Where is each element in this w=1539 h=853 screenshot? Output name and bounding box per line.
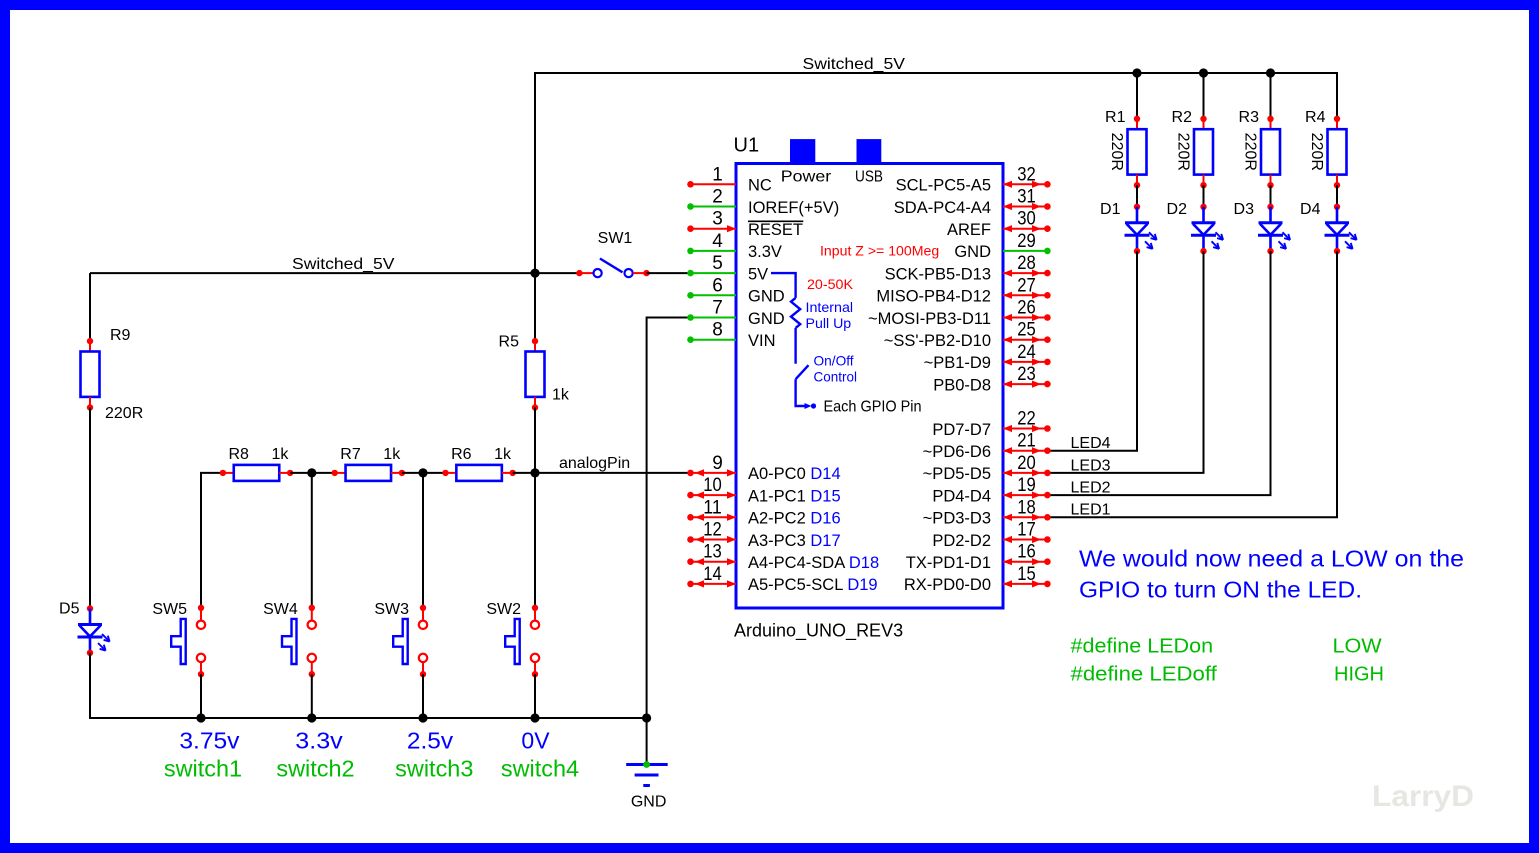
pin 27 (U1 right) — [1003, 292, 1051, 299]
svg-text:SW1: SW1 — [598, 230, 633, 247]
svg-text:PD4-D4: PD4-D4 — [932, 487, 991, 505]
svg-text:GPIO to turn ON the LED.: GPIO to turn ON the LED. — [1079, 576, 1362, 602]
svg-text:~PB1-D9: ~PB1-D9 — [924, 354, 991, 372]
pin 21 (U1 right) — [1003, 447, 1051, 454]
svg-text:1k: 1k — [272, 446, 290, 463]
junction bus/R3 — [1266, 68, 1275, 77]
svg-text:25: 25 — [1017, 320, 1036, 341]
wire: D2 anode from resistor — [1203, 185, 1205, 207]
wire: R5 column — [534, 273, 536, 341]
wire: R3 column from bus — [1270, 73, 1272, 119]
svg-text:6: 6 — [712, 275, 723, 296]
svg-text:20: 20 — [1017, 453, 1036, 474]
wire: R8 to junction — [290, 472, 312, 474]
svg-text:Internal: Internal — [806, 299, 854, 315]
svg-text:D4: D4 — [1300, 201, 1321, 218]
junction rail/SW3 — [418, 713, 427, 722]
resistor R6 — [442, 465, 516, 481]
junction bus/R2 — [1199, 68, 1208, 77]
Power connector — [790, 139, 815, 165]
svg-text:3.75v: 3.75v — [179, 728, 240, 754]
pin 8 (U1 left) — [687, 336, 736, 343]
svg-text:220R: 220R — [1175, 133, 1192, 171]
svg-text:220R: 220R — [105, 405, 143, 422]
svg-text:10: 10 — [703, 475, 722, 496]
svg-text:3.3v: 3.3v — [295, 728, 343, 754]
pin 30 (U1 right) — [1003, 225, 1051, 232]
svg-text:NC: NC — [748, 177, 772, 195]
svg-text:Switched_5V: Switched_5V — [292, 256, 395, 273]
resistor R7 — [332, 465, 406, 481]
LED D5 — [78, 605, 110, 656]
svg-text:7: 7 — [712, 298, 723, 319]
svg-text:R7: R7 — [340, 446, 361, 463]
pin 17 (U1 right) — [1003, 536, 1051, 543]
pin 22 (U1 right) — [1003, 425, 1051, 432]
svg-text:SDA-PC4-A4: SDA-PC4-A4 — [894, 199, 991, 217]
wire: SW3 to bottom rail — [422, 674, 424, 718]
USB connector — [857, 139, 882, 165]
svg-text:22: 22 — [1017, 409, 1036, 430]
pin 16 (U1 right) — [1003, 558, 1051, 565]
svg-text:~PD3-D3: ~PD3-D3 — [923, 510, 991, 528]
svg-text:9: 9 — [712, 453, 723, 474]
svg-text:24: 24 — [1017, 342, 1036, 363]
pin 12 (U1 left) — [687, 536, 736, 543]
wire: junction to SW1 — [535, 272, 579, 274]
pin 7 (U1 left) — [687, 314, 736, 321]
svg-text:5V: 5V — [748, 265, 768, 283]
svg-text:32: 32 — [1017, 164, 1036, 185]
LED D2 — [1191, 204, 1223, 255]
resistor R3 — [1261, 116, 1280, 189]
resistor R1 — [1128, 116, 1147, 189]
svg-text:A1-PC1 D15: A1-PC1 D15 — [748, 487, 841, 505]
wire: R5 to analog junction — [534, 408, 536, 473]
pin 3 (U1 left) — [687, 225, 736, 232]
pin 26 (U1 right) — [1003, 314, 1051, 321]
svg-text:A4-PC4-SDA D18: A4-PC4-SDA D18 — [748, 554, 879, 572]
svg-text:21: 21 — [1017, 431, 1036, 452]
svg-text:VIN: VIN — [748, 332, 776, 350]
svg-text:R2: R2 — [1172, 109, 1193, 126]
pin 29 (U1 right) — [1003, 248, 1051, 255]
svg-text:A3-PC3 D17: A3-PC3 D17 — [748, 532, 841, 550]
wire: Switched_5V top bus — [535, 73, 1337, 273]
pin 20 (U1 right) — [1003, 469, 1051, 476]
wire: D3 anode from resistor — [1270, 185, 1272, 207]
svg-text:IOREF(+5V): IOREF(+5V) — [748, 199, 839, 217]
svg-text:220R: 220R — [1242, 133, 1259, 171]
svg-text:19: 19 — [1017, 475, 1036, 496]
svg-text:LED2: LED2 — [1071, 480, 1111, 497]
svg-text:Switched_5V: Switched_5V — [803, 56, 906, 73]
junction rail/SW5 — [196, 713, 205, 722]
svg-text:~PD6-D6: ~PD6-D6 — [923, 443, 991, 461]
wire: Switched_5V left branch — [90, 272, 535, 274]
svg-text:switch3: switch3 — [395, 755, 473, 781]
svg-text:RESET: RESET — [748, 221, 803, 239]
wire: column to SW3 — [422, 473, 424, 608]
svg-text:A5-PC5-SCL D19: A5-PC5-SCL D19 — [748, 576, 878, 594]
svg-text:AREF: AREF — [947, 221, 991, 239]
wire: R2 column from bus — [1203, 73, 1205, 119]
svg-text:GND: GND — [631, 794, 667, 811]
svg-text:R8: R8 — [229, 446, 250, 463]
wire: R9 to D5 — [89, 408, 91, 609]
svg-text:#define LEDoff: #define LEDoff — [1071, 663, 1218, 685]
svg-text:HIGH: HIGH — [1334, 663, 1384, 685]
svg-text:A0-PC0 D14: A0-PC0 D14 — [748, 465, 841, 483]
pin 2 (U1 left) — [687, 203, 736, 210]
wire: GND pin7 branch — [647, 318, 691, 719]
svg-text:Control: Control — [814, 368, 858, 384]
svg-text:12: 12 — [703, 520, 722, 541]
pin 11 (U1 left) — [687, 514, 736, 521]
svg-text:17: 17 — [1017, 520, 1036, 541]
pin 15 (U1 right) — [1003, 580, 1051, 587]
svg-text:SW2: SW2 — [486, 601, 521, 618]
svg-text:Power: Power — [781, 169, 832, 186]
svg-text:2: 2 — [712, 187, 723, 208]
wire: rail to ground symbol — [646, 718, 648, 765]
wire: junction to R6 — [423, 472, 446, 474]
svg-text:~MOSI-PB3-D11: ~MOSI-PB3-D11 — [868, 310, 991, 328]
svg-text:LOW: LOW — [1333, 635, 1382, 657]
svg-text:~SS'-PB2-D10: ~SS'-PB2-D10 — [884, 332, 991, 350]
svg-text:MISO-PB4-D12: MISO-PB4-D12 — [876, 288, 991, 306]
svg-text:PB0-D8: PB0-D8 — [933, 376, 991, 394]
svg-text:0V: 0V — [521, 728, 550, 754]
svg-text:R5: R5 — [499, 334, 520, 351]
wire: SW2 to bottom rail — [534, 674, 536, 718]
svg-text:A2-PC2 D16: A2-PC2 D16 — [748, 510, 841, 528]
svg-text:29: 29 — [1017, 231, 1036, 252]
pin 23 (U1 right) — [1003, 381, 1051, 388]
svg-text:Pull Up: Pull Up — [806, 315, 852, 331]
svg-text:switch2: switch2 — [276, 755, 354, 781]
pushbutton switch SW4 — [282, 605, 316, 678]
wire: D1 anode from resistor — [1136, 185, 1138, 207]
svg-text:D5: D5 — [59, 601, 80, 618]
svg-text:analogPin: analogPin — [559, 455, 630, 472]
svg-text:Input Z >= 100Meg: Input Z >= 100Meg — [820, 242, 939, 258]
wire: R1 column from bus — [1136, 73, 1138, 119]
pin 24 (U1 right) — [1003, 358, 1051, 365]
svg-text:31: 31 — [1017, 187, 1036, 208]
wire: SW5 to bottom rail — [200, 674, 202, 718]
svg-text:R4: R4 — [1305, 109, 1326, 126]
resistor R8 — [220, 465, 294, 481]
svg-text:8: 8 — [712, 320, 723, 341]
pin 10 (U1 left) — [687, 492, 736, 499]
svg-text:14: 14 — [703, 564, 722, 585]
svg-text:27: 27 — [1017, 275, 1036, 296]
junction: Switched_5V / R5 / SW1 — [530, 269, 539, 278]
svg-text:SW3: SW3 — [374, 601, 409, 618]
svg-text:#define LEDon: #define LEDon — [1071, 635, 1214, 657]
svg-text:26: 26 — [1017, 298, 1036, 319]
wire: junction to R7 — [312, 472, 335, 474]
svg-text:SW4: SW4 — [263, 601, 298, 618]
wire: R6 to junction — [513, 472, 535, 474]
svg-text:16: 16 — [1017, 542, 1036, 563]
pushbutton switch SW5 — [171, 605, 205, 678]
svg-text:23: 23 — [1017, 364, 1036, 385]
internal pull-up circuit (blue) — [771, 273, 816, 409]
svg-text:D2: D2 — [1167, 201, 1188, 218]
LED D4 — [1325, 204, 1357, 255]
svg-text:TX-PD1-D1: TX-PD1-D1 — [906, 554, 991, 572]
svg-text:PD7-D7: PD7-D7 — [932, 421, 991, 439]
IC U1 Arduino_UNO_REV3 box — [736, 164, 1003, 609]
svg-text:28: 28 — [1017, 253, 1036, 274]
svg-text:15: 15 — [1017, 564, 1036, 585]
svg-text:switch4: switch4 — [501, 755, 579, 781]
wire: R7 to junction — [402, 472, 423, 474]
svg-text:2.5v: 2.5v — [407, 728, 454, 754]
svg-text:R1: R1 — [1105, 109, 1126, 126]
wire: D column x=1203.5 to pin 20 — [1047, 251, 1203, 473]
svg-text:RX-PD0-D0: RX-PD0-D0 — [904, 576, 991, 594]
svg-text:LED1: LED1 — [1071, 502, 1111, 519]
svg-text:18: 18 — [1017, 497, 1036, 518]
wire: D4 anode from resistor — [1336, 185, 1338, 207]
svg-text:Each GPIO Pin: Each GPIO Pin — [824, 398, 922, 415]
svg-text:On/Off: On/Off — [814, 353, 854, 369]
svg-text:D3: D3 — [1234, 201, 1255, 218]
svg-text:USB: USB — [855, 169, 883, 186]
junction rail/SW4 — [307, 713, 316, 722]
svg-text:3.3V: 3.3V — [748, 243, 782, 261]
junction R8/R7/SW4 — [307, 468, 316, 477]
svg-text:LarryD: LarryD — [1372, 780, 1474, 813]
ground symbol GND — [626, 761, 668, 785]
svg-text:R9: R9 — [110, 327, 131, 344]
resistor R5 — [526, 338, 545, 411]
svg-text:220R: 220R — [1308, 133, 1325, 171]
junction rail/GND — [642, 713, 651, 722]
LED D1 — [1125, 204, 1157, 255]
pin 6 (U1 left) — [687, 292, 736, 299]
svg-text:D1: D1 — [1100, 201, 1121, 218]
wire: analogPin to U1 pin 9 — [535, 472, 691, 474]
wire: R9 column top — [89, 273, 91, 341]
wire: SW1 to pin 5 — [647, 272, 691, 274]
svg-text:1k: 1k — [383, 446, 401, 463]
svg-text:220R: 220R — [1108, 133, 1125, 171]
pin 19 (U1 right) — [1003, 492, 1051, 499]
junction R7/R6/SW3 — [418, 468, 427, 477]
svg-text:GND: GND — [748, 310, 785, 328]
pin 28 (U1 right) — [1003, 270, 1051, 277]
svg-text:PD2-D2: PD2-D2 — [932, 532, 991, 550]
svg-text:R3: R3 — [1239, 109, 1260, 126]
wire: D column x=1137 to pin 21 — [1047, 251, 1137, 451]
pushbutton switch SW3 — [393, 605, 427, 678]
svg-text:20-50K: 20-50K — [807, 276, 854, 292]
svg-text:U1: U1 — [734, 134, 760, 156]
svg-text:~PD5-D5: ~PD5-D5 — [923, 465, 991, 483]
svg-text:We would now need a LOW on the: We would now need a LOW on the — [1079, 546, 1464, 572]
svg-text:GND: GND — [954, 243, 991, 261]
wire: SW4 to bottom rail — [311, 674, 313, 718]
svg-text:R6: R6 — [451, 446, 472, 463]
svg-text:SCL-PC5-A5: SCL-PC5-A5 — [896, 177, 991, 195]
pin 13 (U1 left) — [687, 558, 736, 565]
svg-text:Arduino_UNO_REV3: Arduino_UNO_REV3 — [734, 621, 903, 642]
pin 4 (U1 left) — [687, 248, 736, 255]
pin 18 (U1 right) — [1003, 514, 1051, 521]
svg-text:LED4: LED4 — [1071, 435, 1111, 452]
wire: D column x=1270.5 to pin 19 — [1047, 251, 1270, 495]
resistor R2 — [1194, 116, 1213, 189]
pin 31 (U1 right) — [1003, 203, 1051, 210]
wire: chain left corner down to SW5 — [201, 473, 223, 608]
pin 9 (U1 left) — [687, 469, 736, 476]
svg-text:13: 13 — [703, 542, 722, 563]
svg-text:GND: GND — [748, 288, 785, 306]
svg-text:switch1: switch1 — [164, 755, 242, 781]
svg-text:4: 4 — [712, 231, 723, 252]
pin 32 (U1 right) — [1003, 181, 1051, 188]
junction R6/R5/SW2 — [530, 468, 539, 477]
pin 1 (U1 left) — [687, 181, 736, 188]
junction bus/R1 — [1132, 68, 1141, 77]
svg-text:1k: 1k — [494, 446, 512, 463]
pin 25 (U1 right) — [1003, 336, 1051, 343]
RESET overline — [748, 220, 803, 222]
resistor R9 — [81, 338, 100, 411]
svg-text:11: 11 — [703, 497, 722, 518]
wire: analog junction down to SW2 — [534, 473, 536, 608]
svg-text:5: 5 — [712, 253, 723, 274]
svg-text:30: 30 — [1017, 209, 1036, 230]
svg-text:3: 3 — [712, 209, 723, 230]
resistor R4 — [1328, 116, 1347, 189]
wire: D5 to bottom rail — [90, 653, 647, 718]
svg-text:SCK-PB5-D13: SCK-PB5-D13 — [885, 265, 991, 283]
switch SW1 — [576, 259, 650, 278]
pin 5 (U1 left) — [687, 270, 736, 277]
svg-text:1k: 1k — [552, 387, 570, 404]
pin 14 (U1 left) — [687, 580, 736, 587]
svg-text:1: 1 — [712, 164, 723, 185]
svg-text:LED3: LED3 — [1071, 457, 1111, 474]
junction rail/SW2 — [530, 713, 539, 722]
wire: D column x=1337 to pin 18 — [1047, 251, 1337, 517]
svg-text:SW5: SW5 — [152, 601, 187, 618]
pushbutton switch SW2 — [505, 605, 539, 678]
LED D3 — [1258, 204, 1290, 255]
wire: column to SW4 — [311, 473, 313, 608]
